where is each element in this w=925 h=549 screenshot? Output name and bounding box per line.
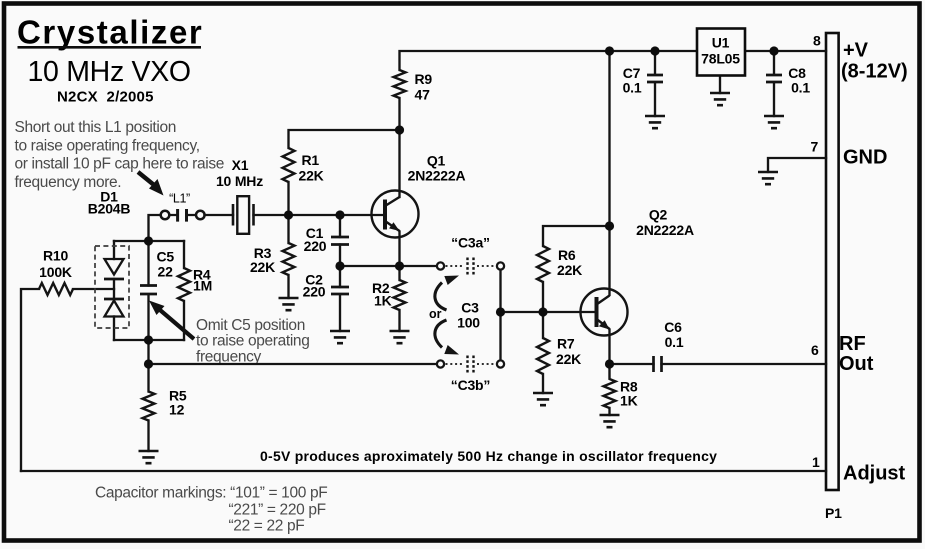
svg-text:+V: +V [843,40,869,62]
wire R6 bottom [542,282,544,312]
label or [429,307,442,321]
label R8 [620,379,638,409]
junction Q2 collector [605,221,614,230]
wire R7 to ground [542,374,544,393]
crystal X1 [233,196,254,234]
svg-text:RF: RF [839,333,866,355]
wire C6 to pin 6 [662,363,827,365]
junction C3 mid [496,307,505,316]
capacitor C6 [654,356,662,372]
arrow note to C5 [149,301,194,340]
label Q1 [408,153,466,184]
author N2CX 2/2005 [57,89,154,106]
wire R8 to ground [608,408,610,415]
svg-text:“C3b”: “C3b” [451,377,490,393]
svg-text:C5: C5 [157,249,175,265]
svg-text:78L05: 78L05 [701,51,740,67]
label R10 [39,248,72,281]
arrow note to L1 [138,172,164,196]
wire C2 to ground [339,295,341,332]
pin 7 label [811,139,819,155]
net label RF Out [839,333,874,375]
label C3b [451,377,490,393]
regulator U1 box [697,29,745,76]
subtitle 10 MHz VXO [28,56,191,88]
wire Q2 collector column [608,51,610,295]
ground R7 [533,393,553,405]
resistor R4 [178,268,190,301]
wire R2 top [398,266,400,280]
wire C1 to C2 node [339,245,341,288]
svg-text:220: 220 [303,284,326,300]
pin 6 label [811,342,819,358]
wire lower rail to C3b [149,363,437,365]
svg-text:22K: 22K [557,262,582,278]
wire R10 to D1 [73,288,114,290]
cap position C3b [437,356,504,373]
wire crystal to Q1 base [254,214,383,216]
label X1 [216,157,263,189]
svg-text:1K: 1K [374,293,392,309]
junction lower rail [144,359,153,368]
junction top rail Q2 [605,46,614,55]
wire C5 bottom [147,295,149,341]
svg-text:(8-12V): (8-12V) [841,61,908,83]
wire R3 top [287,215,289,243]
net label GND [843,147,887,169]
svg-text:0-5V produces aproximately 500: 0-5V produces aproximately 500 Hz change… [260,448,717,464]
wire C3 node to Q2 base [501,311,595,313]
capacitor C2 [331,287,349,294]
wire C5 top [147,241,149,286]
caption 0-5V [260,448,717,464]
wire Q1 emitter down [398,232,400,267]
svg-text:22: 22 [158,264,174,280]
svg-text:Crystalizer: Crystalizer [17,14,203,51]
svg-text:R1: R1 [302,152,320,168]
resistor R9 [394,70,406,98]
svg-text:R7: R7 [557,336,575,352]
svg-text:12: 12 [169,402,185,418]
ground C8 [764,116,784,128]
wire D1 top rail [114,240,184,242]
wire R3 to ground [287,275,289,298]
svg-text:Omit C5 position: Omit C5 position [196,317,305,334]
wire U1 ground stub [719,76,721,94]
label C2 [303,272,326,300]
label C7 [623,65,642,96]
note: omit C5 [196,317,309,365]
resistor R5 [143,392,155,421]
label R3 [250,245,275,275]
ground C7 [645,116,665,128]
junction C1 top [335,210,344,219]
label C3a [451,235,490,251]
label R1 [299,152,324,184]
junction crystal R3 [284,210,293,219]
svg-text:100K: 100K [39,264,72,280]
wire C7 top [654,51,656,74]
junction Q1 emitter [395,261,404,270]
arrow or to C3a [435,276,459,311]
label C5 [157,249,175,280]
ground R3 [279,298,299,310]
wire R1 bottom to crystal node [287,182,289,215]
wire top rail left of U1 [400,51,697,70]
svg-text:Q2: Q2 [649,207,668,223]
capacitor C7 [647,75,663,82]
svg-text:X1: X1 [232,157,249,173]
pin 1 label [812,454,820,470]
capacitor C1 [331,237,349,245]
svg-text:1K: 1K [620,393,638,409]
label R5 [169,388,187,418]
diode D1 varactor pair [95,246,129,328]
svg-text:2N2222A: 2N2222A [636,222,694,238]
wire left edge to R10 [21,289,39,471]
label R2 [372,280,392,309]
svg-text:10 MHz VXO: 10 MHz VXO [28,56,191,88]
wire U1 output to pin 8 [745,50,826,52]
svg-text:B204B: B204B [88,201,131,217]
svg-text:or: or [429,307,442,321]
wire emitter to C6 [610,363,654,365]
transistor Q1 [372,191,419,238]
wire emitter rail to C3a [340,265,437,267]
svg-text:100: 100 [457,315,480,331]
svg-text:Q1: Q1 [427,153,446,169]
resistor R2 [394,280,406,310]
title Crystalizer [17,14,203,51]
junction R9 bottom [395,125,404,134]
svg-text:0.1: 0.1 [665,334,684,350]
svg-text:R10: R10 [43,248,68,264]
junction top rail C8 [769,46,778,55]
junction top rail C7 [650,46,659,55]
svg-text:“221” = 220 pF: “221” = 220 pF [229,502,326,519]
svg-text:2N2222A: 2N2222A [408,168,466,184]
resistor R1 [283,148,295,182]
svg-text:Short out this L1 position: Short out this L1 position [15,119,177,136]
net label +V (8-12V) [841,40,908,83]
wire L1 to crystal [205,214,234,216]
wire R9 to Q1 collector [398,98,400,197]
wire C7 to ground [654,83,656,116]
wire node to L1 left terminal [149,215,161,241]
svg-text:0.1: 0.1 [791,80,810,96]
svg-text:“C3a”: “C3a” [451,235,490,251]
ground U1 [710,93,730,105]
label R4 [193,267,212,294]
svg-text:to raise operating frequency,: to raise operating frequency, [15,137,200,154]
caption capacitor markings [95,485,327,535]
svg-text:1M: 1M [193,278,212,294]
svg-text:22K: 22K [556,351,581,367]
resistor R8 [604,364,616,408]
capacitor C5 [140,286,157,295]
junction Q2 emitter [605,359,614,368]
label R6 [557,247,582,278]
svg-text:P1: P1 [825,505,842,521]
junction C1 C2 [335,261,344,270]
svg-text:7: 7 [811,139,819,155]
label C8 [788,65,810,96]
svg-text:or install 10 pF cap here to r: or install 10 pF cap here to raise [15,156,225,173]
svg-text:8: 8 [813,33,821,49]
wire D1 anode top [113,241,115,259]
svg-text:1: 1 [812,454,820,470]
svg-text:Capacitor markings: “101” = 10: Capacitor markings: “101” = 100 pF [95,485,327,502]
wire C8 to ground [773,83,775,116]
svg-text:22K: 22K [299,168,324,184]
svg-text:R9: R9 [415,71,433,87]
junction D1 bottom [144,335,153,344]
ground pin7 [758,172,778,184]
svg-text:“L1”: “L1” [169,192,190,206]
ground R5 [139,451,159,463]
wire C1 top [339,215,341,237]
wire C3 junction column [499,271,501,360]
svg-text:U1: U1 [712,35,730,51]
svg-text:47: 47 [415,87,431,103]
inductor position L1 terminals [161,209,205,222]
junction R6 R7 [538,307,547,316]
wire C5 node to rail node [147,340,149,392]
svg-text:Out: Out [839,353,874,375]
resistor R7 [537,338,549,374]
svg-text:GND: GND [843,147,887,169]
wire R4 bottom [183,301,185,340]
wire Q2 emitter down [608,330,610,365]
svg-text:N2CX 2/2005: N2CX 2/2005 [57,89,154,106]
wire adjust bottom rail [21,470,826,472]
wire pin 7 gnd stub [768,158,826,172]
wire R1 top to R9 bottom [289,130,400,148]
label U1 [701,35,740,67]
wire R4 column [183,241,185,268]
label R9 [415,71,433,103]
svg-text:220: 220 [304,238,327,254]
label R7 [556,336,581,368]
svg-text:to raise operating: to raise operating [196,333,309,350]
label L1 [169,192,190,206]
svg-text:22K: 22K [250,259,275,275]
wire D1 bottom rail [114,339,184,341]
note: short out L1 [15,119,225,191]
ground C2 [330,331,350,343]
svg-text:0.1: 0.1 [623,80,642,96]
svg-text:R6: R6 [558,247,576,263]
arrow or to C3b [435,320,459,355]
wire C8 top [773,51,775,74]
resistor R6 [537,246,549,282]
svg-text:6: 6 [811,342,819,358]
label C6 [664,319,684,350]
resistor R3 [283,243,295,275]
transistor Q2 [581,289,628,336]
pin 8 label [813,33,821,49]
svg-text:C3: C3 [461,300,479,316]
junction D1 top [144,236,153,245]
label Q2 [636,207,694,239]
svg-text:Adjust: Adjust [843,463,906,485]
label C1 [304,225,327,254]
wire D1 middle junction [113,279,115,299]
label C3 [457,300,480,331]
wire D1 bottom [113,317,115,341]
resistor R10 [39,283,73,295]
wire R7 top [542,312,544,338]
label D1 [88,189,131,217]
ground R8 [600,415,620,427]
cap position C3a [437,258,504,275]
svg-text:10 MHz: 10 MHz [216,173,263,189]
wire R6 top rail [543,226,610,246]
svg-text:“22 = 22 pF: “22 = 22 pF [229,518,305,535]
capacitor C8 [766,75,782,82]
connector P1 [825,33,842,521]
wire R5 to ground [147,421,149,452]
svg-text:C6: C6 [664,319,682,335]
ground R2 [390,331,410,343]
net label Adjust [843,463,906,485]
wire R2 to ground [398,310,400,331]
